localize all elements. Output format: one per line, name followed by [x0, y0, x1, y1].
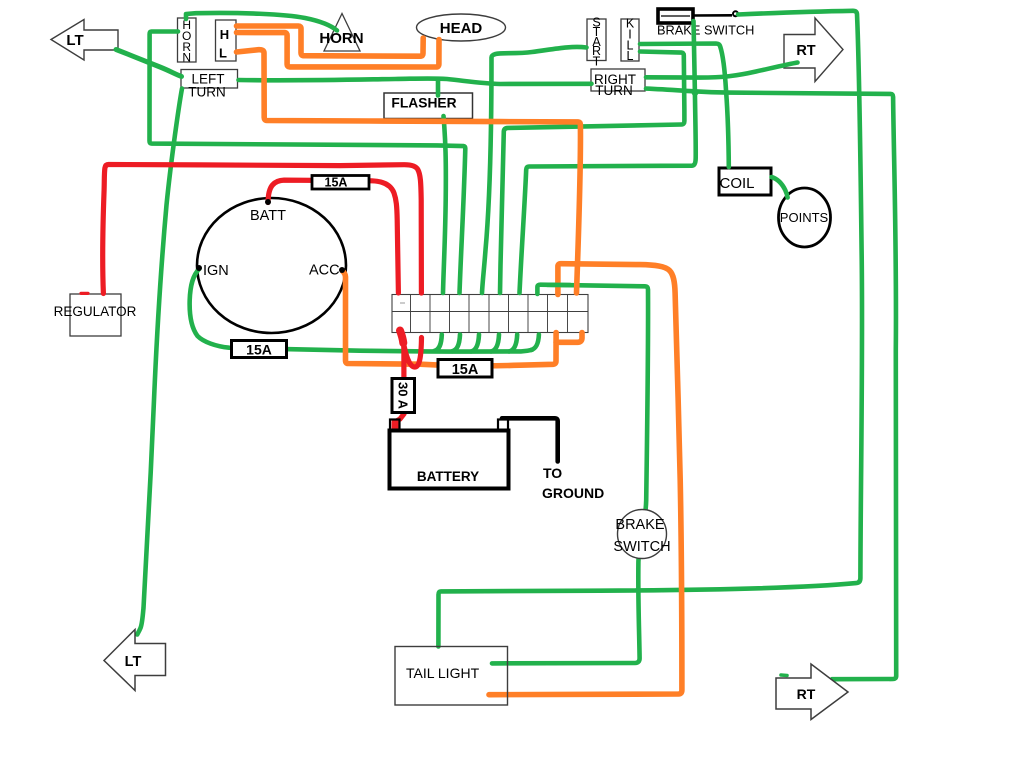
- svg-text:N: N: [182, 51, 191, 65]
- svg-text:BATTERY: BATTERY: [417, 469, 479, 484]
- right turn switch box RIGHT TURN: [591, 69, 645, 98]
- wire green: stub flasher top: [436, 81, 441, 96]
- svg-text:30 A: 30 A: [396, 382, 411, 410]
- wire green: overlay segment over orange at strip-right crossing: [547, 282, 570, 287]
- svg-text:L: L: [219, 46, 227, 61]
- wire green: small mark on bottom RT arrow: [781, 673, 787, 677]
- svg-text:BRAKE: BRAKE: [615, 517, 664, 533]
- kill switch box KILL: [621, 17, 639, 64]
- svg-text:FLASHER: FLASHER: [391, 96, 456, 111]
- battery: [390, 420, 509, 489]
- svg-text:RT: RT: [797, 686, 816, 702]
- svg-text:T: T: [593, 55, 601, 69]
- fuse 15A top (ignition feed): [312, 176, 369, 190]
- arrow RT top-right: [784, 18, 843, 82]
- wire green: horn button to horn: [186, 13, 337, 31]
- front brake switch symbol (top): [657, 9, 754, 38]
- wire green: strip bottom hook 6: [531, 335, 539, 351]
- wire green: COIL to POINTS: [772, 177, 788, 198]
- points ellipse POINTS: [779, 188, 831, 247]
- terminal strip: [392, 295, 588, 333]
- svg-text:HORN: HORN: [319, 30, 363, 47]
- wire green: IGN to 15A fuse to strip bottom bus: [190, 269, 532, 352]
- tail light box TAIL LIGHT: [395, 647, 508, 706]
- svg-text:REGULATOR: REGULATOR: [54, 304, 137, 319]
- rear brake switch circle: [613, 510, 670, 559]
- svg-text:L: L: [627, 49, 634, 63]
- battery positive terminal red blob: [392, 419, 400, 432]
- wire orange: ACC down and right up to strip bottom: [343, 271, 557, 366]
- svg-text:IGN: IGN: [203, 263, 229, 279]
- fuse 15A bottom middle (ACC circuit): [438, 360, 492, 379]
- wire green: strip bottom hook 3: [471, 335, 479, 352]
- ignition coil box COIL: [719, 168, 771, 195]
- svg-text:BRAKE SWITCH: BRAKE SWITCH: [657, 23, 754, 38]
- horn button box HORN: [178, 18, 197, 65]
- wire green: START left down to terminal strip: [482, 47, 587, 293]
- svg-text:BATT: BATT: [250, 208, 286, 224]
- node junction of brake lead and right-turn wire: [692, 89, 699, 96]
- start button box START: [587, 16, 606, 69]
- arrow RT bottom: [776, 664, 848, 720]
- svg-text:15A: 15A: [325, 176, 348, 190]
- wire orange: L to flasher feed down to terminal strip: [237, 50, 581, 293]
- svg-text:SWITCH: SWITCH: [613, 539, 670, 555]
- svg-text:RT: RT: [796, 43, 815, 59]
- faint mark in strip cell 1: [400, 302, 405, 304]
- svg-text:TURN: TURN: [188, 85, 226, 100]
- wire green: horn box loop down-left to terminal strip: [150, 32, 466, 294]
- arrow LT top-left: [51, 20, 118, 61]
- svg-text:15A: 15A: [246, 342, 272, 358]
- wire orange: H lower to HEAD right lead: [237, 33, 440, 68]
- svg-text:TO: TO: [543, 465, 562, 481]
- ignition switch circle: [197, 198, 346, 333]
- wire green: flasher bottom to terminal strip: [443, 116, 446, 293]
- wire red: small tick near regulator top: [81, 292, 88, 295]
- headlight ellipse HEAD: [417, 14, 506, 41]
- svg-text:LT: LT: [66, 32, 83, 49]
- svg-text:ACC: ACC: [309, 263, 340, 279]
- wire green: strip bottom hook 1: [434, 335, 442, 352]
- ignition switch terminals and labels: [196, 199, 345, 279]
- wire orange: H top to HEAD left lead: [237, 26, 424, 56]
- wire green: terminal strip to rear brake switch to tail light: [492, 285, 648, 664]
- svg-text:H: H: [220, 27, 229, 42]
- wire orange: branch bridging second strip terminal: [556, 333, 582, 343]
- fuse 30A main: [392, 379, 415, 413]
- wire green: strip bottom hook 5: [509, 335, 517, 352]
- wire red: U jumper under strip: [403, 338, 422, 368]
- svg-text:LT: LT: [125, 654, 142, 670]
- arrow LT bottom: [104, 630, 166, 691]
- fuse 15A left (IGN circuit): [232, 341, 287, 358]
- wire green: LEFT TURN right to RIGHT TURN: [239, 78, 592, 84]
- wire red: strip down through 30A fuse to battery: [397, 331, 404, 421]
- flasher relay box FLASHER: [384, 93, 473, 119]
- wire green: from front brake switch hook right and down to rear, then to tail light: [438, 11, 862, 647]
- wire orange: strip top right loop to tail light: [489, 264, 682, 695]
- svg-text:TAIL LIGHT: TAIL LIGHT: [406, 665, 480, 681]
- svg-text:GROUND: GROUND: [542, 485, 604, 501]
- wire red: regulator up and right to strip: [103, 165, 422, 294]
- svg-text:COIL: COIL: [719, 175, 754, 192]
- wire green: brake switch lead down, left, to terminal strip: [520, 21, 696, 293]
- regulator box REGULATOR: [54, 294, 137, 336]
- left turn switch box LEFT TURN: [181, 70, 238, 100]
- wire green: LEFT TURN down to bottom LT arrow: [137, 89, 182, 635]
- wire green: strip bottom hook 2: [452, 335, 460, 352]
- horn triangle HORN: [319, 14, 363, 52]
- svg-text:HEAD: HEAD: [440, 20, 483, 37]
- svg-text:POINTS: POINTS: [780, 210, 829, 225]
- headlight switch box H L: [216, 20, 237, 61]
- wire green: RIGHT TURN lower long loop to bottom RT arrow: [646, 89, 896, 680]
- wire green: strip bottom hook 4: [491, 335, 499, 352]
- wire green: KILL upper to COIL: [640, 44, 729, 168]
- wire green: RIGHT TURN upper to RT arrow: [646, 63, 798, 78]
- svg-text:15A: 15A: [452, 362, 479, 378]
- wire green: LT arrow diagonal to LEFT TURN: [116, 50, 182, 77]
- wire black: battery to ground: [502, 418, 558, 461]
- wire green: KILL lower to terminal strip: [500, 52, 684, 294]
- wire red: BATT via 15A fuse to strip: [268, 180, 398, 293]
- svg-text:TURN: TURN: [595, 83, 633, 98]
